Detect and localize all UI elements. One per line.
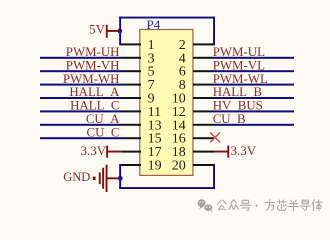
svg-text:19: 19 (148, 159, 162, 174)
svg-text:PWM-WH: PWM-WH (63, 72, 120, 86)
svg-text:GND: GND (63, 170, 90, 184)
svg-text:PWM-UH: PWM-UH (66, 45, 120, 59)
svg-text:CU C: CU C (87, 125, 120, 139)
svg-text:CU A: CU A (86, 112, 120, 126)
svg-text:CU B: CU B (213, 112, 246, 126)
svg-text:HALL B: HALL B (213, 85, 262, 99)
svg-text:HALL C: HALL C (70, 99, 119, 113)
svg-text:3.3V: 3.3V (81, 143, 107, 158)
svg-text:PWM-UL: PWM-UL (213, 45, 265, 59)
svg-text:5V: 5V (89, 21, 106, 36)
svg-text:HALL A: HALL A (69, 85, 120, 99)
svg-text:20: 20 (172, 159, 186, 174)
svg-text:P4: P4 (147, 17, 161, 32)
svg-text:PWM-VH: PWM-VH (66, 58, 120, 72)
svg-text:HV BUS: HV BUS (213, 99, 263, 113)
svg-text:3.3V: 3.3V (231, 143, 257, 158)
svg-text:PWM-WL: PWM-WL (213, 72, 268, 86)
svg-text:PWM-VL: PWM-VL (213, 58, 265, 72)
